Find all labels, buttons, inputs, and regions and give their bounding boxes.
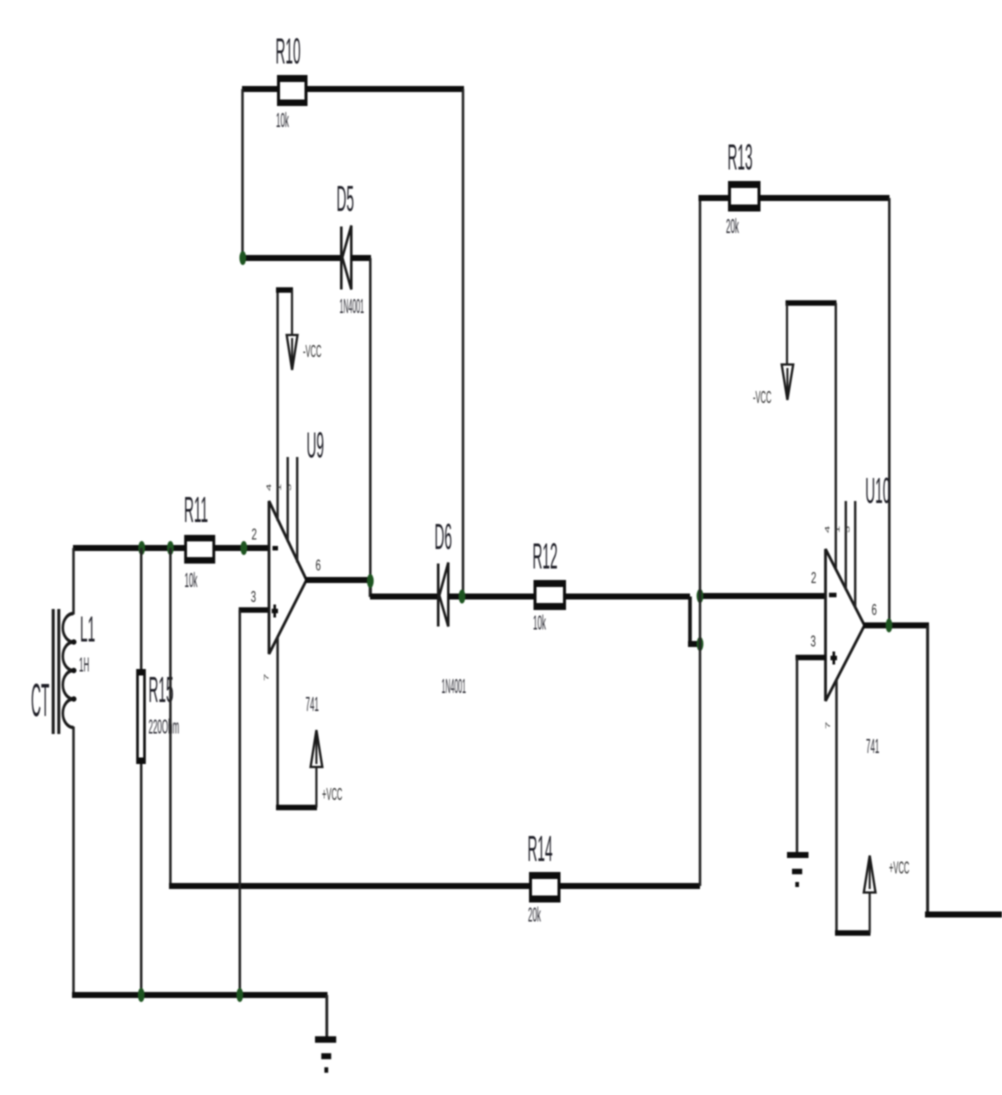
node main wire R14 junction [167,541,174,555]
wire U10 pin4 lead [835,303,837,570]
svg-text:10k: 10k [533,612,546,634]
svg-text:+VCC: +VCC [889,858,909,878]
ground symbol bottom [315,995,336,1070]
pin labels 4 1 5 on U9 [266,483,293,491]
wire R15 bottom lead [140,764,143,995]
svg-text:7: 7 [825,721,832,729]
wire main input horizontal [73,545,269,551]
transformer core bars CT [31,609,59,734]
svg-text:20k: 20k [528,904,541,926]
wire R13 horizontal left [699,195,730,201]
wire R13 right lead vertical [888,198,891,625]
svg-text:3: 3 [811,632,816,650]
svg-text:D6: D6 [435,516,452,557]
ground symbol U10 [787,855,809,885]
svg-text:741: 741 [306,694,319,716]
wire R13 horizontal right [759,195,890,201]
node bottom bus R15 junction [138,988,145,1002]
node R10/D5 junction [239,251,246,265]
svg-text:R12: R12 [533,535,558,576]
svg-text:1N4001: 1N4001 [442,676,466,699]
svg-text:220Ohm: 220Ohm [149,716,180,738]
wire R14 horizontal left segment [169,883,530,889]
wire U9 pin5 stub [296,457,298,563]
power +VCC symbol U10 [835,856,909,934]
wire R14 horizontal right segment [559,883,700,889]
power -VCC symbol U9 [276,290,321,370]
wire D5 right vertical to U9 output [369,258,372,580]
wire bottom ground bus [72,992,328,998]
svg-text:2: 2 [252,525,257,543]
node U9 pin2 junction [240,541,247,555]
wire U10 pin5 stub [854,501,856,609]
power -VCC symbol U10 [753,303,837,407]
svg-text:CT: CT [31,675,49,726]
wire U10 pin7 lead [835,679,838,934]
wire U9 output [305,580,438,597]
svg-text:5: 5 [844,525,851,533]
diode D5 [337,178,364,318]
wire R15 top lead [140,548,143,670]
node R12 R13 junction [697,589,704,603]
svg-text:R10: R10 [276,30,301,71]
node D6 R10 junction [459,590,466,604]
svg-text:4: 4 [266,483,273,491]
node jog junction [697,637,704,651]
svg-text:10k: 10k [185,570,198,592]
svg-text:20k: 20k [726,216,739,238]
node main wire R15 junction [138,541,145,555]
svg-text:L1: L1 [80,608,95,649]
op-amp U9 [269,424,324,716]
svg-text:U9: U9 [307,424,324,465]
resistor R13 [726,136,761,238]
svg-text:1: 1 [834,525,841,533]
node U10 output junction [886,618,893,632]
svg-text:1N4001: 1N4001 [340,296,364,319]
svg-text:U10: U10 [865,470,890,511]
svg-text:+VCC: +VCC [322,784,342,804]
svg-text:7: 7 [263,673,270,681]
svg-text:5: 5 [286,483,293,491]
svg-text:4: 4 [824,525,831,533]
svg-text:1H: 1H [79,654,89,676]
svg-text:1: 1 [276,483,283,491]
diode D6 [435,516,466,698]
resistor R15 [136,669,179,764]
resistor R11 [184,489,215,592]
wire U9 pin7 lead [276,637,279,808]
wire R12 to jog [565,594,690,600]
svg-text:741: 741 [866,736,879,758]
wire R14 left vertical [169,548,172,886]
resistor R10 [276,30,308,132]
svg-text:-VCC: -VCC [753,387,771,407]
resistor R14 [528,828,561,927]
svg-text:-VCC: -VCC [303,341,321,361]
pin labels 4 1 5 on U10 [824,525,851,533]
svg-text:6: 6 [316,556,321,574]
svg-text:R13: R13 [728,136,753,177]
node U9 output junction [367,574,374,588]
op-amp U10 [826,470,891,758]
wire left edge vertical [72,548,75,995]
wire R10 top loop horizontal [242,86,464,92]
wire jog vertical [688,597,700,645]
svg-text:R14: R14 [528,828,553,869]
svg-text:2: 2 [811,568,816,586]
wire U10 pin3 lead [796,658,827,854]
wire R10 right vertical down to D6 node [462,89,465,596]
wire U9 pin1 stub [287,457,289,542]
wire node A to U10 pin2 [700,593,826,599]
wire R10 left vertical [241,89,244,258]
wire D5 anode segment [242,255,340,261]
svg-text:3: 3 [251,587,256,605]
svg-text:R11: R11 [184,489,208,530]
wire D6 to R12 [448,594,534,600]
node bottom bus pin3 junction [236,988,243,1002]
wire U10 output [863,625,1002,915]
wire R13 left lead vertical [699,198,702,886]
power +VCC symbol U9 [276,730,342,808]
svg-text:D5: D5 [337,178,354,219]
wire U10 pin1 stub [845,501,847,590]
wire U9 pin3 lead [239,610,269,995]
svg-text:10k: 10k [276,110,289,132]
inductor L1 coil [63,608,95,727]
wire U9 pin4 lead [276,290,278,521]
resistor R12 [533,535,567,634]
wire D5 cathode segment [351,255,371,261]
svg-text:6: 6 [872,600,877,618]
